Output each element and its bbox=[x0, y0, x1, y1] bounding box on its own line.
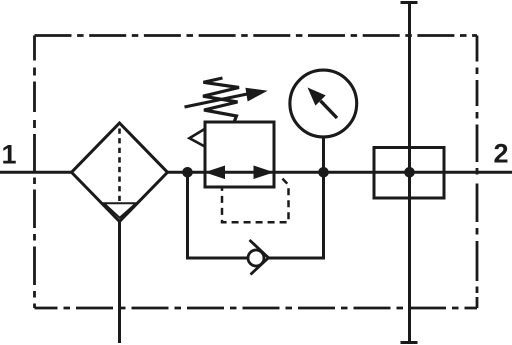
svg-text:1: 1 bbox=[2, 140, 17, 170]
svg-text:2: 2 bbox=[494, 139, 509, 169]
